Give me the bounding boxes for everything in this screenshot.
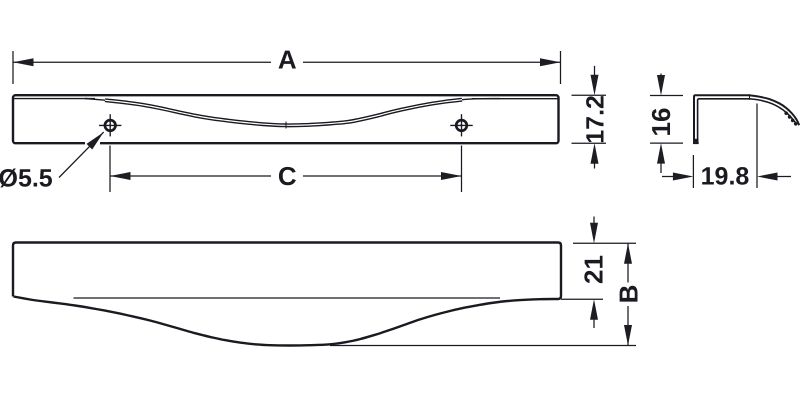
svg-text:19.8: 19.8 — [701, 163, 750, 191]
svg-text:B: B — [614, 285, 644, 304]
svg-text:16: 16 — [646, 108, 676, 137]
svg-text:Ø5.5: Ø5.5 — [0, 165, 53, 193]
svg-text:21: 21 — [579, 255, 609, 284]
svg-text:C: C — [278, 161, 297, 191]
svg-text:17.2: 17.2 — [582, 95, 610, 144]
svg-text:A: A — [278, 45, 297, 75]
